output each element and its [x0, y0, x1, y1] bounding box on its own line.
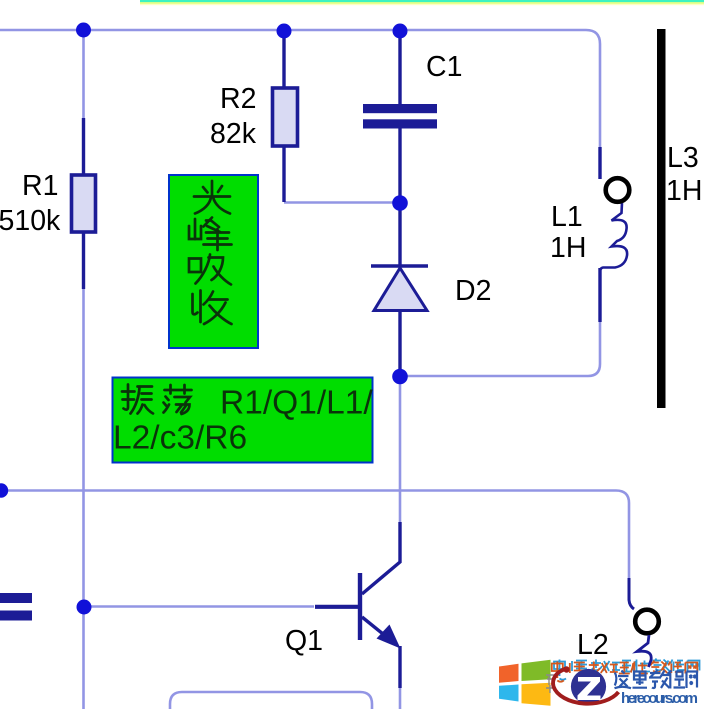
svg-text:Q1: Q1 — [285, 625, 323, 657]
svg-text:L1: L1 — [551, 201, 583, 233]
svg-text:L2: L2 — [577, 629, 609, 661]
svg-text:1H: 1H — [550, 232, 586, 264]
svg-text:82k: 82k — [210, 118, 257, 150]
svg-text:510k: 510k — [0, 205, 61, 237]
svg-text:1H: 1H — [666, 175, 702, 207]
svg-text:R2: R2 — [220, 83, 256, 115]
svg-text:D2: D2 — [455, 275, 491, 307]
svg-text:C1: C1 — [426, 51, 462, 83]
svg-text:L3: L3 — [667, 142, 699, 174]
svg-text:herecours.com: herecours.com — [621, 690, 698, 707]
svg-text:L2/c3/R6: L2/c3/R6 — [113, 420, 247, 457]
svg-text:R1/Q1/L1/: R1/Q1/L1/ — [220, 385, 373, 422]
svg-text:R1: R1 — [22, 170, 58, 202]
